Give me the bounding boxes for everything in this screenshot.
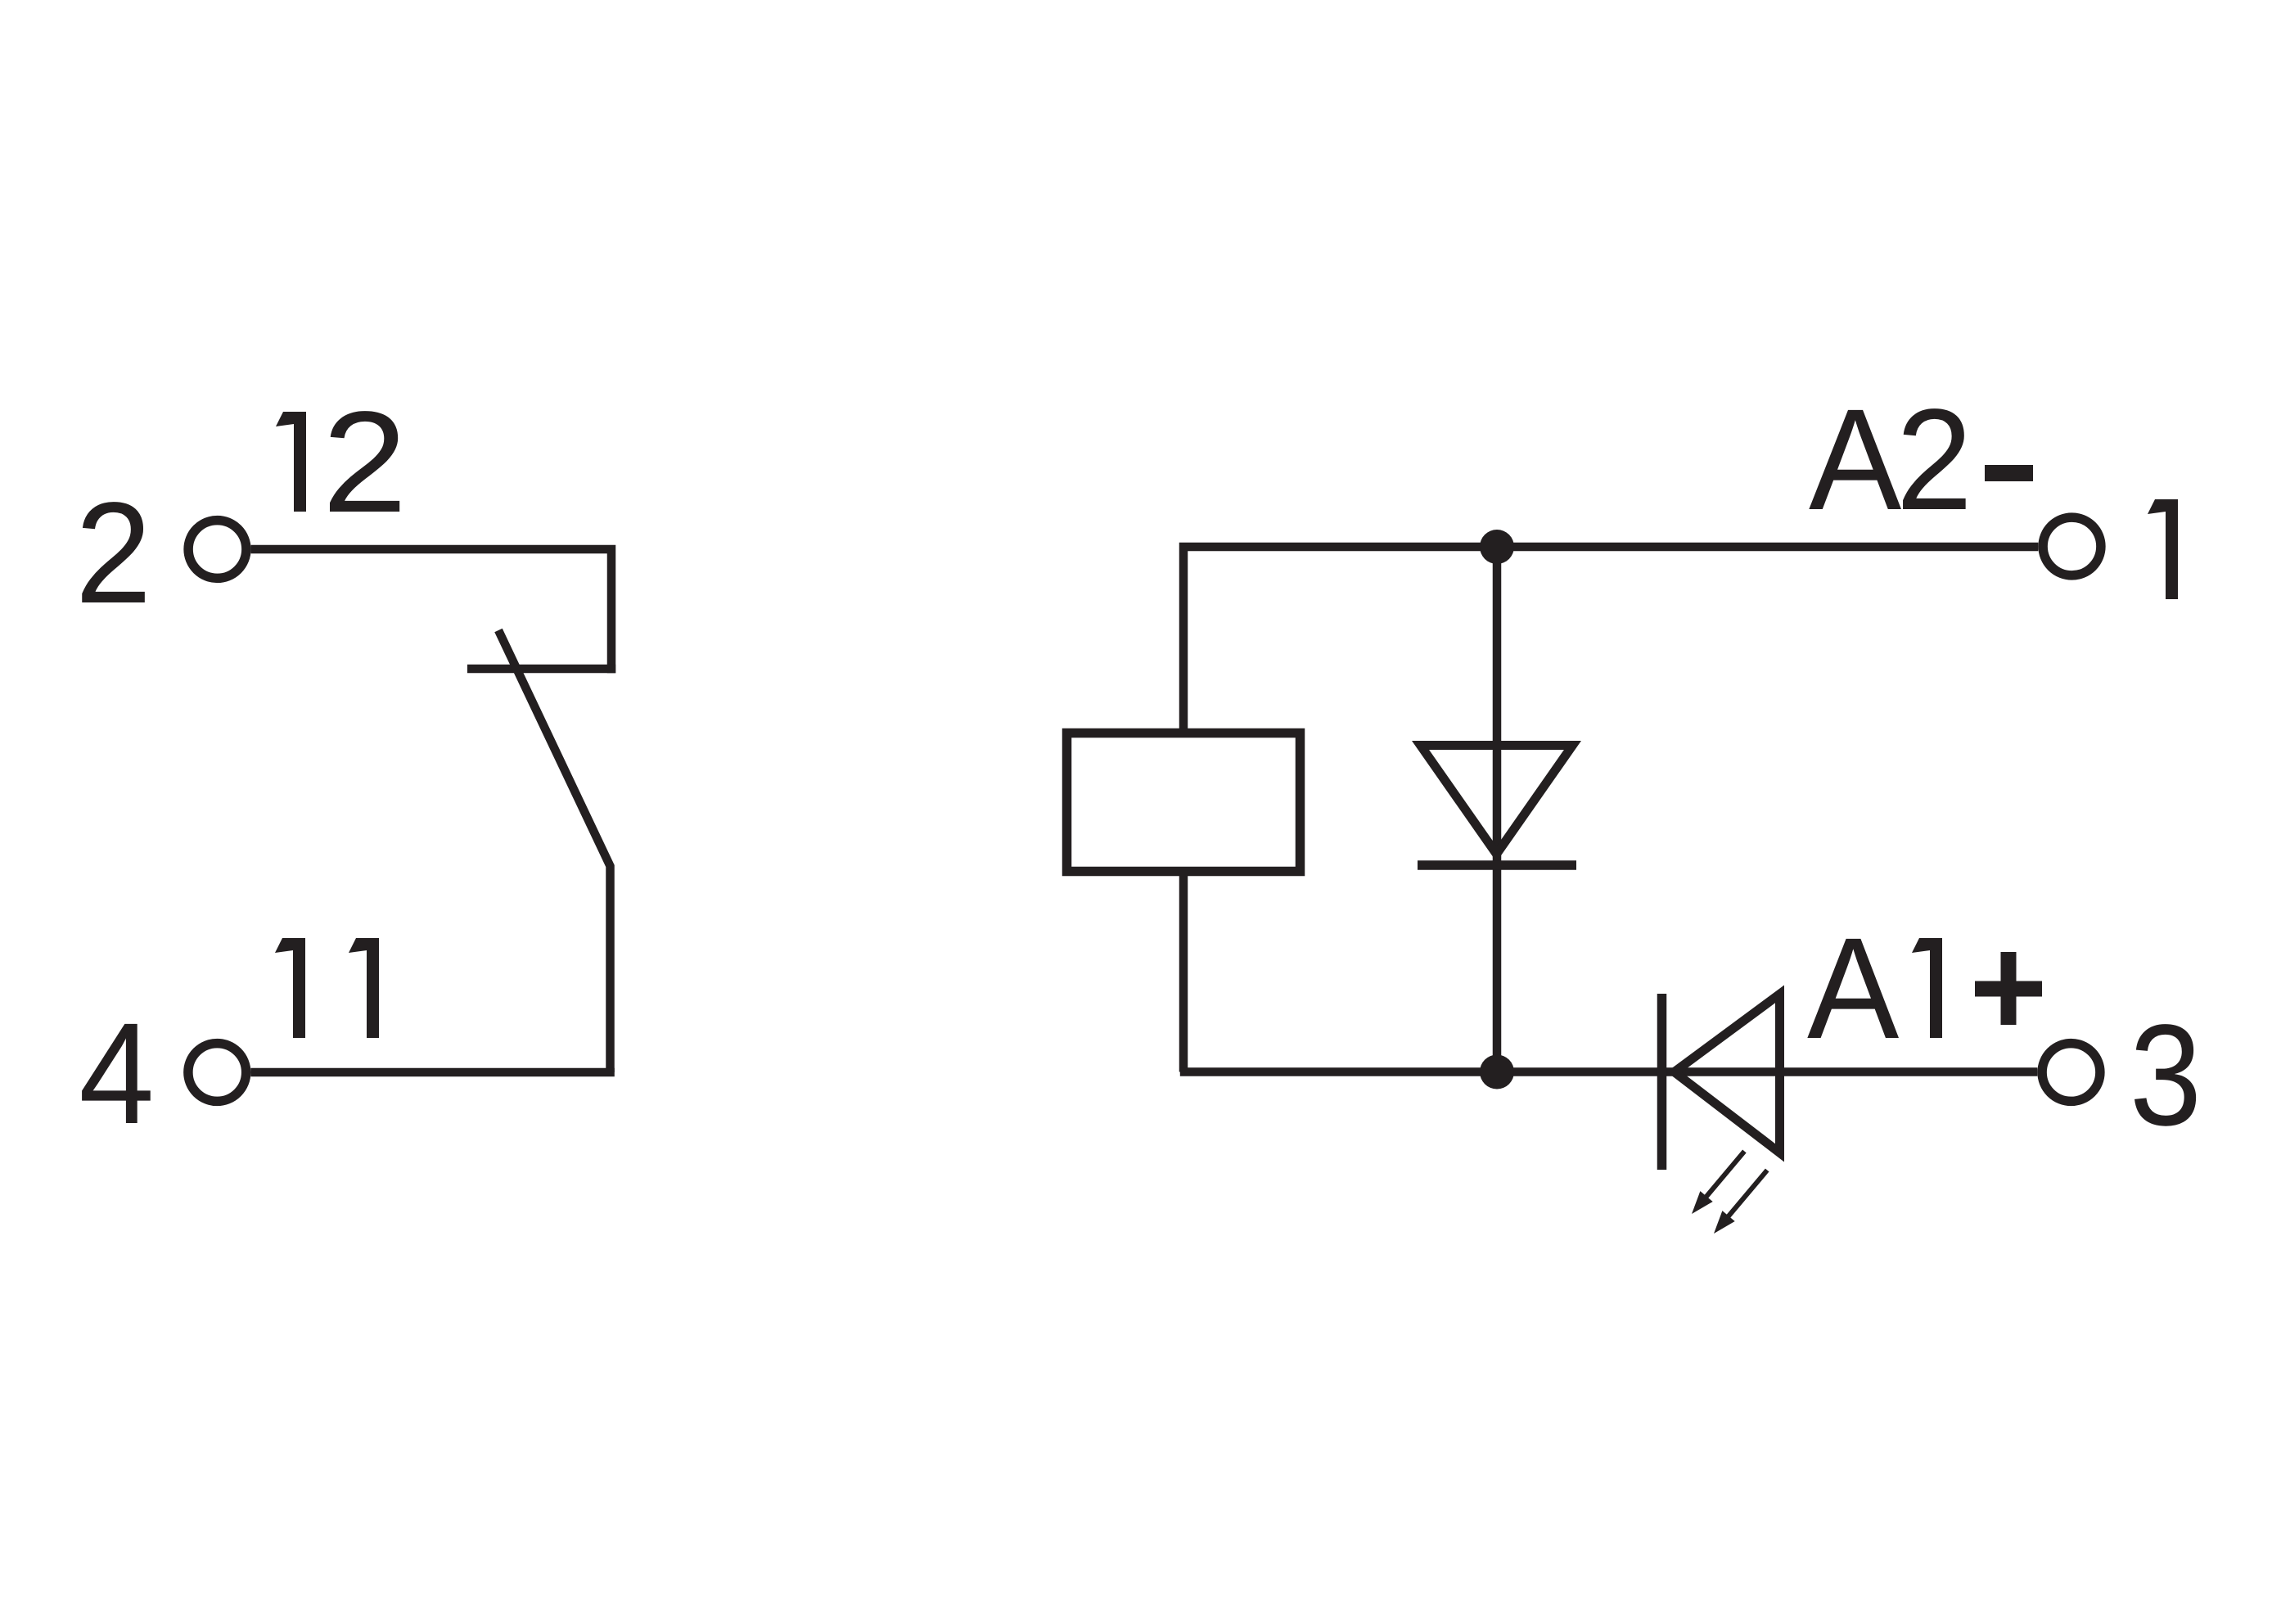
svg-text:2: 2 <box>1896 380 1973 540</box>
LED cathode bar <box>1657 994 1667 1170</box>
junction dot bottom <box>1480 1055 1514 1089</box>
terminal 3 circle <box>2042 1044 2100 1102</box>
diode branch wire <box>1493 547 1502 1072</box>
contact label 12 <box>276 382 408 543</box>
LED light arrow 2 <box>1725 1171 1767 1220</box>
NC contact fixed bar <box>467 665 615 674</box>
freewheeling diode cathode bar <box>1418 860 1576 870</box>
terminal 4 circle <box>188 1044 246 1102</box>
svg-text:4: 4 <box>79 994 154 1154</box>
LED triangle <box>1667 986 1785 1162</box>
net label A2- <box>1809 380 2033 540</box>
contact label 11 <box>275 938 379 1038</box>
svg-text:3: 3 <box>2130 995 2202 1156</box>
net label A1+ <box>1807 909 2042 1069</box>
terminal 2 circle <box>188 521 246 579</box>
NC contact lever <box>498 630 611 1072</box>
wire NC contact to terminal 4 <box>250 1068 614 1077</box>
LED light arrow 1 <box>1703 1151 1744 1200</box>
pin label 1 <box>2148 499 2178 599</box>
bottom rail to terminal 3 <box>1180 1067 2038 1076</box>
wire coil top to terminal 1 <box>1183 547 2038 733</box>
svg-text:2: 2 <box>75 473 152 634</box>
svg-text:A: A <box>1807 909 1900 1069</box>
wire coil bottom to bottom rail <box>1179 872 1188 1072</box>
freewheeling diode triangle <box>1412 741 1581 862</box>
wire terminal 2 to NC contact <box>251 549 611 673</box>
svg-text:A: A <box>1809 380 1902 540</box>
relay coil box <box>1067 733 1301 872</box>
junction dot top <box>1480 530 1514 564</box>
svg-text:2: 2 <box>322 382 408 543</box>
terminal 1 circle <box>2043 517 2101 575</box>
